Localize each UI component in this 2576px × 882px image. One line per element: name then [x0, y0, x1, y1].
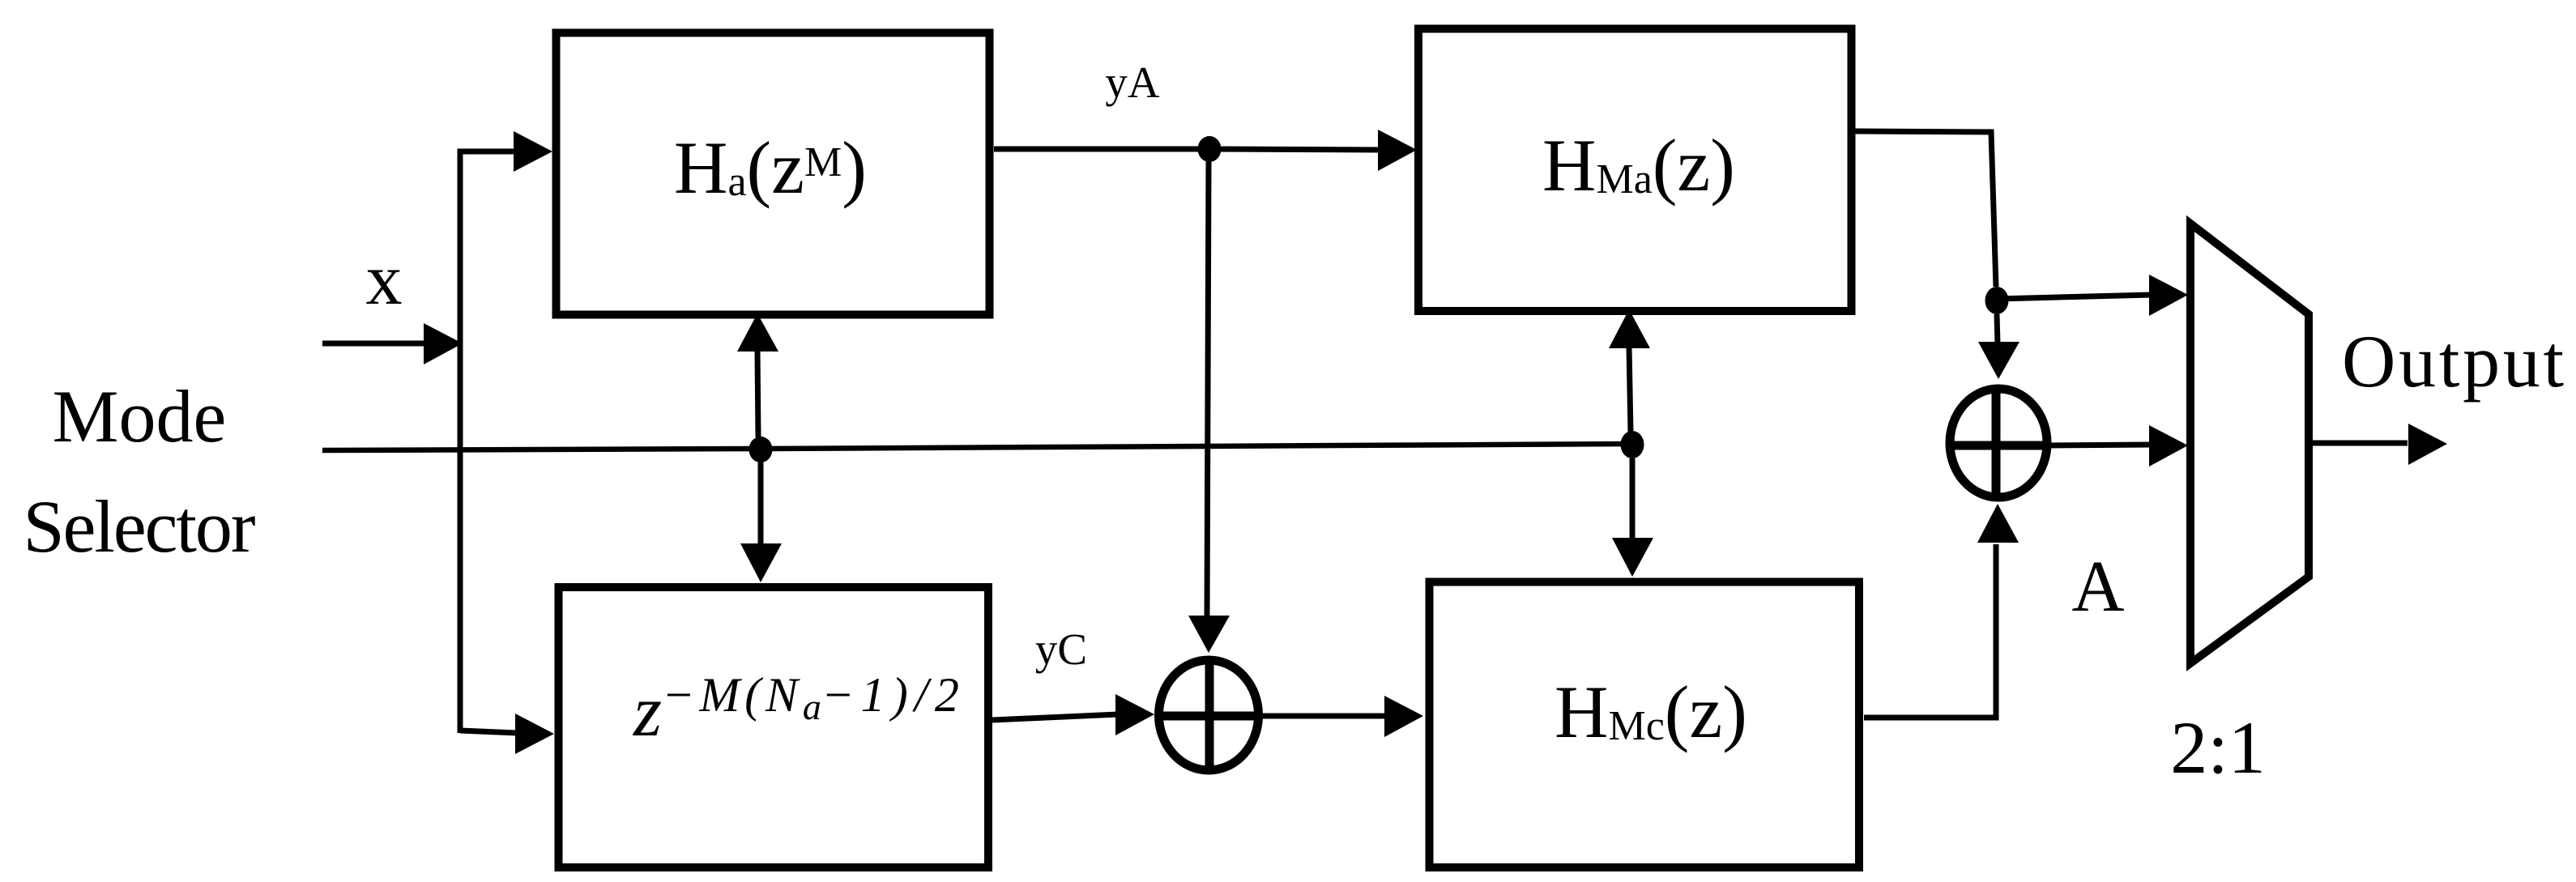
- wire mode to delay (down arrow): [758, 462, 764, 546]
- svg-text:Output: Output: [2342, 320, 2564, 403]
- wire output: [2309, 441, 2408, 446]
- wire branch to delay input: [460, 731, 517, 733]
- block Ha(zM): [557, 33, 990, 315]
- wire HMa output to junction A: [1855, 131, 1996, 287]
- block HMc(z): [1430, 582, 1860, 868]
- svg-text:A: A: [2072, 547, 2125, 627]
- adder S1: [1157, 658, 1261, 773]
- wire adder1 to HMc: [1261, 714, 1386, 719]
- wire mode selector line: [322, 444, 1632, 450]
- junction A: [1985, 287, 2009, 314]
- mux 2:1: [2190, 224, 2309, 663]
- wire yC from delay output: [992, 714, 1118, 720]
- wire HMc output up to adder2: [1864, 544, 1996, 718]
- svg-text:yC: yC: [1035, 624, 1087, 674]
- wire yA from Ha output: [994, 147, 1209, 152]
- wire mode to HMa (up arrow): [1629, 347, 1631, 432]
- svg-text:x: x: [366, 240, 403, 320]
- block delay z^-M(Na-1)/2: [559, 587, 989, 867]
- svg-text:2:1: 2:1: [2170, 706, 2266, 789]
- wire yA to HMa: [1209, 149, 1379, 150]
- wire x input: [322, 341, 427, 347]
- wire mode to HMc (down arrow): [1630, 458, 1636, 539]
- wire mode to Ha (up arrow): [757, 349, 758, 437]
- junction mode-2: [1621, 431, 1644, 458]
- svg-text:Mode: Mode: [53, 375, 227, 458]
- svg-text:Selector: Selector: [23, 485, 256, 568]
- junction mode-1: [749, 437, 773, 462]
- wire junction A to mux input 1: [1997, 295, 2152, 299]
- wire yA down to adder1: [1207, 160, 1209, 617]
- block HMa(z): [1418, 29, 1852, 312]
- adder S2: [1948, 387, 2049, 499]
- wire adder2 to mux input 2: [2049, 445, 2152, 445]
- svg-text:yA: yA: [1105, 58, 1160, 107]
- wire junction A down to adder2: [1997, 314, 1998, 343]
- junction yA: [1198, 136, 1222, 162]
- wire input branch vertical: [460, 151, 515, 733]
